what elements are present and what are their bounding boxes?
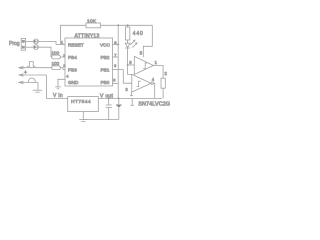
wire regulator ground [82, 112, 84, 120]
schmitt mark U3A [143, 63, 147, 69]
node junction R3 / top rail [127, 24, 129, 26]
resistor R3 440 vertical [127, 25, 129, 27]
svg-text:PB1: PB1 [101, 67, 110, 72]
wire RESET pin stub [56, 44, 65, 46]
svg-text:PB4: PB4 [68, 55, 77, 60]
wire VCC pin8 stub [113, 44, 119, 46]
signal arrow supply plus [19, 74, 24, 77]
svg-text:5: 5 [113, 77, 116, 82]
wire D1 to RESET [39, 41, 56, 44]
node junction top rail / bus [117, 24, 119, 26]
ground regulator [79, 119, 87, 121]
resistor R4 vertical right [161, 78, 165, 88]
svg-text:ATTINY13: ATTINY13 [75, 33, 100, 39]
wire R4 to Vout rail [162, 88, 164, 98]
wire U3B ground pin [131, 92, 133, 95]
svg-text:SN74LVC2G: SN74LVC2G [138, 101, 170, 107]
IC U1 ATTINY13 body [65, 38, 113, 86]
wire D2 to R1 [39, 47, 52, 57]
capacitor C2 polarized [118, 98, 120, 104]
wire LED to inverter input [128, 48, 135, 65]
diode D1 [34, 39, 39, 44]
svg-text:100: 100 [52, 51, 60, 56]
resistor 10K [86, 23, 101, 28]
svg-text:100: 100 [52, 61, 60, 66]
svg-text:4: 4 [66, 73, 69, 78]
waveform bump symbol [28, 78, 35, 82]
svg-text:RESET: RESET [68, 42, 84, 47]
signal arrow pulse input [19, 66, 24, 69]
diode D2 [34, 45, 39, 50]
inverter U3A triangle [134, 56, 153, 74]
svg-text:1: 1 [61, 39, 64, 44]
wire LED node down to second inverter [128, 65, 132, 74]
svg-text:PB3: PB3 [68, 67, 77, 72]
LED D3 [127, 40, 129, 43]
wire PB0 pin5 stub down to Vout rail [113, 83, 119, 85]
node junction C1 / Vout rail [108, 97, 110, 99]
wire top rail left segment (RESET net) [61, 25, 87, 44]
svg-text:PB2: PB2 [101, 55, 110, 60]
wire prog pin1 [26, 40, 34, 42]
ground chip [55, 86, 61, 88]
wire inverter VCC drop [143, 25, 152, 57]
capacitor C1 [108, 98, 110, 104]
svg-text:2: 2 [165, 71, 168, 76]
wire bottom ground rail [83, 119, 118, 121]
inverter U3B triangle [132, 74, 151, 92]
svg-text:PB0: PB0 [101, 80, 110, 85]
waveform pulse symbol [27, 62, 35, 67]
svg-text:V in: V in [53, 93, 63, 99]
wire top rail right segment (VCC net) [101, 24, 153, 26]
node junction pin8 / VCC bus [117, 44, 119, 46]
svg-text:GND: GND [68, 80, 79, 85]
svg-text:+: + [24, 70, 27, 76]
wire R1 to PB4 [60, 56, 65, 58]
wire supply to Vin [47, 75, 68, 98]
node junction LED / U3A input [127, 64, 129, 66]
svg-text:Prog: Prog [9, 41, 20, 47]
wire PB1 pin6 stub to inverter input [113, 70, 132, 84]
wire VCC bus vertical [117, 25, 119, 98]
svg-text:2: 2 [63, 53, 66, 58]
svg-text:4: 4 [152, 77, 155, 82]
wire return down [37, 82, 39, 90]
node junction VCC bus / Vout rail [118, 97, 120, 99]
svg-text:5: 5 [140, 50, 143, 55]
svg-text:440: 440 [133, 31, 144, 37]
bubble U3B output [151, 82, 153, 84]
wire U3B output [153, 83, 154, 98]
resistor R1 100 [52, 55, 61, 59]
wire prog pin2 [26, 46, 34, 48]
resistor R2 100 [52, 66, 61, 70]
svg-text:6: 6 [114, 63, 117, 68]
wire Vout rail [98, 97, 162, 99]
wire R2 to PB3 [60, 68, 65, 70]
svg-text:HT7544: HT7544 [71, 99, 91, 105]
svg-text:3: 3 [125, 87, 128, 92]
wire PB2 pin7 stub [113, 56, 119, 58]
svg-text:1: 1 [155, 60, 158, 65]
ground return [33, 89, 43, 91]
wire U3A output [154, 66, 164, 79]
svg-text:3: 3 [63, 63, 66, 68]
svg-text:6: 6 [129, 60, 132, 65]
svg-text:10K: 10K [87, 18, 97, 24]
signal arrow return [19, 81, 24, 84]
svg-text:VCC: VCC [100, 42, 111, 47]
schmitt mark U3B [137, 81, 141, 87]
svg-text:V out: V out [100, 93, 113, 99]
wire GND pin4 [58, 79, 65, 86]
